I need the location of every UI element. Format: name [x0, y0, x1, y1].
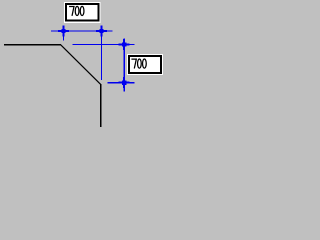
edit box top (value 700): [64, 2, 101, 23]
grip marker C (124.2,44.5): [119, 39, 130, 50]
extension line bottom of right dimension: [107, 82, 134, 83]
dimension line top (horizontal 700): [51, 30, 112, 31]
wire: chamfer diagonal line: [61, 45, 101, 85]
dimension line right (vertical 700): [124, 38, 125, 91]
grip marker D (124.2,82.7): [119, 77, 130, 88]
wire: vertical geometry line: [100, 84, 101, 127]
grip marker A (63,31): [58, 26, 69, 37]
extension tick at left end of top dimension: [63, 31, 64, 41]
wire: horizontal geometry line: [4, 44, 61, 45]
extension line from right end of top dimension down to chamfer: [101, 26, 102, 81]
value label 700 (right): [131, 59, 146, 69]
edit box right (value 700): [127, 54, 163, 75]
value label 700 (top): [69, 6, 84, 16]
extension line top of right dimension: [72, 44, 134, 45]
grip marker B (101.5,31): [96, 26, 107, 37]
